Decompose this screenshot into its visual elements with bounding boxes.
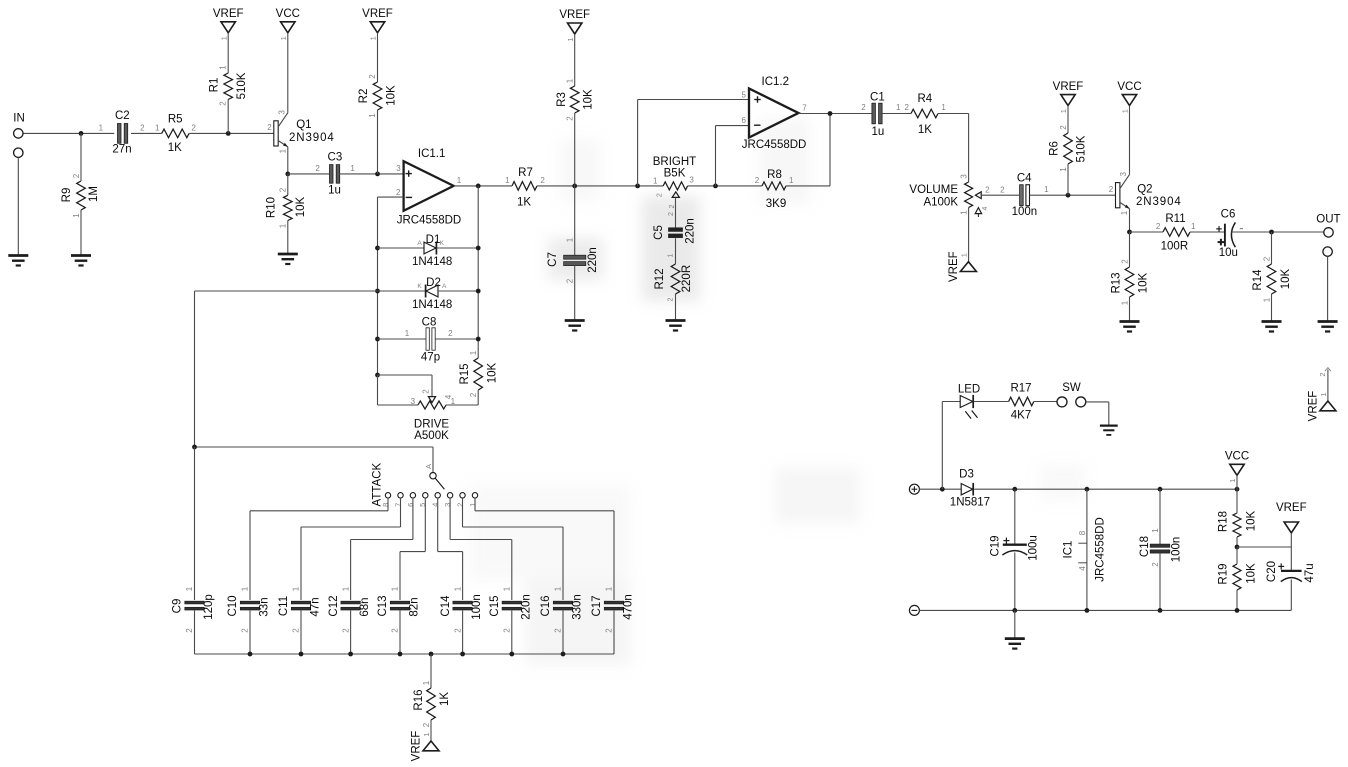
svg-text:1K: 1K: [439, 692, 451, 706]
resistor R15 10K: [459, 350, 498, 397]
svg-text:470n: 470n: [623, 594, 635, 620]
svg-text:4: 4: [444, 394, 453, 399]
svg-text:C5: C5: [653, 225, 665, 240]
diode D1 1N4148: [412, 234, 452, 268]
svg-text:1: 1: [422, 732, 431, 736]
resistor R4 1K: [904, 93, 946, 136]
svg-text:82n: 82n: [409, 597, 421, 616]
svg-text:3: 3: [411, 397, 416, 406]
node C19 top: [1012, 487, 1017, 492]
svg-text:C2: C2: [115, 110, 130, 122]
ground C7: [565, 321, 585, 331]
svg-text:R13: R13: [1110, 272, 1122, 293]
node C19 bottom: [1012, 608, 1017, 613]
svg-text:3K9: 3K9: [766, 198, 786, 210]
node C18 top: [1158, 487, 1163, 492]
svg-text:1: 1: [391, 586, 400, 591]
wire VOLUME wiper to C4: [981, 194, 1019, 196]
wire R17 to SW: [1034, 401, 1057, 403]
svg-text:JRC4558DD: JRC4558DD: [397, 214, 462, 226]
svg-text:1: 1: [350, 164, 355, 173]
svg-text:2N3904: 2N3904: [1136, 196, 1182, 208]
wire R7 to BRIGHT: [537, 185, 663, 187]
resistor R18 10K: [1218, 510, 1258, 537]
svg-text:3: 3: [396, 164, 401, 173]
resistor R1 510K: [209, 65, 249, 106]
wire R16 bottom: [430, 720, 432, 741]
svg-text:1: 1: [405, 329, 410, 338]
svg-text:2: 2: [422, 722, 431, 727]
svg-text:2: 2: [554, 628, 563, 633]
svg-text:1: 1: [1262, 297, 1271, 302]
wire VREF to R6: [1067, 106, 1069, 133]
wire C16 bottom: [562, 611, 564, 655]
svg-text:2: 2: [540, 176, 545, 185]
wire R11 to C6: [1190, 231, 1224, 233]
wire IN sleeve to ground: [17, 157, 19, 255]
svg-text:C18: C18: [1139, 536, 1151, 557]
capacitor C8 47p: [405, 317, 453, 364]
resistor R10 10K: [266, 187, 307, 228]
svg-text:R15: R15: [459, 363, 471, 384]
wire IC1.1 -input: [378, 197, 404, 375]
wire D1 left: [378, 247, 425, 249]
svg-text:B5K: B5K: [664, 168, 686, 180]
svg-text:2: 2: [656, 193, 663, 197]
node IC1 bottom: [1085, 608, 1090, 613]
svg-text:C6: C6: [1221, 209, 1236, 221]
svg-text:1: 1: [1191, 222, 1196, 231]
svg-text:IC1.2: IC1.2: [762, 76, 790, 88]
wire feedback right vertical: [477, 186, 479, 358]
wire Q2 collector to VCC: [1129, 106, 1131, 175]
op-amp IC1.2 JRC4558DD: [741, 76, 807, 151]
svg-text:C11: C11: [278, 596, 290, 616]
wire contact3 to C15: [450, 498, 512, 600]
svg-text:220n: 220n: [520, 594, 532, 620]
wire + to D3: [919, 488, 961, 490]
svg-text:IC1: IC1: [1063, 541, 1075, 559]
switch contact 1: [468, 493, 478, 507]
svg-text:C20: C20: [1266, 561, 1278, 582]
diode D2 1N4148: [412, 277, 452, 311]
wire C9 bottom: [194, 611, 196, 655]
wire R14 bottom: [1271, 294, 1273, 322]
node D2 right: [476, 289, 481, 294]
svg-text:68n: 68n: [359, 597, 371, 616]
svg-text:C7: C7: [547, 252, 559, 267]
diode LED: [958, 384, 980, 419]
svg-text:C3: C3: [328, 152, 343, 164]
rotary switch ATTACK common: [372, 462, 445, 506]
wire C19 top: [1014, 489, 1016, 543]
node Q2 emitter: [1127, 230, 1132, 235]
node R2 / +input: [375, 172, 380, 177]
svg-text:220n: 220n: [684, 218, 696, 244]
wire C8 right: [435, 338, 478, 340]
connector OUT jack: [1316, 213, 1340, 256]
resistor R5 1K: [155, 113, 196, 154]
node Q1 emitter: [285, 172, 290, 177]
svg-text:2: 2: [185, 628, 194, 633]
svg-text:A: A: [442, 283, 447, 290]
wire D1 right: [436, 247, 478, 249]
svg-text:R8: R8: [767, 169, 782, 181]
switch contact 6: [406, 493, 416, 507]
svg-text:2: 2: [1151, 562, 1160, 567]
wire ground rail: [919, 609, 1291, 611]
svg-text:1: 1: [566, 37, 575, 41]
svg-text:47p: 47p: [421, 351, 440, 363]
power VREF at divider: [1276, 502, 1307, 533]
junction bottom bus: [398, 652, 403, 657]
svg-text:2: 2: [668, 212, 675, 216]
svg-text:ATTACK: ATTACK: [372, 462, 384, 506]
wire C12 bottom: [350, 611, 352, 655]
svg-text:4: 4: [982, 206, 989, 210]
svg-text:5: 5: [418, 503, 427, 507]
svg-text:D2: D2: [426, 277, 441, 289]
svg-text:33n: 33n: [259, 597, 271, 616]
wire SW to ground: [1086, 402, 1109, 426]
svg-text:2: 2: [503, 628, 512, 633]
wire C8 left: [378, 338, 427, 340]
wire C7 bottom: [574, 266, 576, 321]
wire R9 top: [80, 133, 82, 181]
svg-text:R14: R14: [1252, 269, 1264, 291]
svg-text:1: 1: [554, 586, 563, 591]
svg-text:1: 1: [1151, 528, 1160, 533]
node C18 bottom: [1158, 608, 1163, 613]
svg-text:10K: 10K: [1245, 563, 1257, 584]
wire BRIGHT wiper to C5: [675, 198, 677, 228]
svg-text:2: 2: [72, 173, 81, 178]
node C8 left: [375, 337, 380, 342]
svg-text:1: 1: [896, 103, 901, 112]
wire R1 to base node: [227, 100, 229, 134]
svg-text:R11: R11: [1165, 213, 1185, 225]
ground supply: [1005, 639, 1025, 649]
wire C20 bottom: [1290, 580, 1292, 611]
power VREF at R6: [1053, 81, 1084, 113]
ground IN jack: [8, 256, 28, 266]
power VREF floating stub: [1307, 368, 1336, 422]
svg-text:10K: 10K: [385, 85, 397, 106]
wire emitter to C3: [288, 173, 330, 175]
capacitor C10 33n: [227, 586, 270, 633]
junction bottom bus: [429, 652, 434, 657]
svg-text:R16: R16: [413, 689, 425, 710]
svg-text:1: 1: [453, 586, 462, 591]
junction bottom bus: [248, 652, 253, 657]
wire bottom bus: [195, 653, 615, 655]
ground OUT jack: [1318, 322, 1338, 332]
node input: [79, 131, 84, 136]
wire C5 to R12: [675, 238, 677, 264]
node LED branch: [940, 487, 945, 492]
svg-text:1: 1: [241, 586, 250, 591]
svg-text:100R: 100R: [1161, 240, 1189, 252]
node R18/R19: [1235, 545, 1240, 550]
svg-text:Q1: Q1: [296, 119, 311, 131]
svg-text:R4: R4: [917, 93, 932, 105]
svg-text:OUT: OUT: [1316, 213, 1340, 225]
svg-text:1: 1: [1120, 210, 1129, 215]
wire R6 to node: [1067, 164, 1069, 195]
svg-text:R5: R5: [168, 113, 183, 125]
wire C7 top: [574, 186, 576, 255]
capacitor C6 10u polarized: [1216, 209, 1243, 259]
wire VREF stub: [1290, 533, 1292, 547]
wire C2 to R5: [131, 132, 162, 134]
resistor R11 100R: [1156, 213, 1196, 252]
capacitor C14 100n: [440, 586, 483, 633]
svg-text:2: 2: [566, 116, 575, 121]
node D1 left: [375, 246, 380, 251]
svg-text:R6: R6: [1048, 141, 1060, 156]
svg-text:10K: 10K: [487, 362, 499, 383]
connector + terminal: [909, 484, 919, 494]
wire R13 bottom: [1129, 297, 1131, 322]
wire R18 leads: [1236, 489, 1238, 547]
capacitor C17 470n: [591, 586, 634, 633]
wire R4 to VOLUME: [938, 114, 969, 183]
svg-text:10K: 10K: [1138, 272, 1150, 293]
wire R10 top: [287, 174, 289, 195]
wire C18 bottom: [1159, 554, 1161, 611]
wire R19 leads: [1236, 547, 1238, 610]
capacitor C15 220n: [489, 586, 532, 633]
svg-text:1K: 1K: [517, 197, 531, 209]
svg-text:2: 2: [755, 176, 760, 185]
power VREF at VOLUME: [948, 251, 977, 282]
node IC1.2 output: [828, 111, 833, 116]
svg-text:1K: 1K: [918, 124, 932, 136]
svg-text:3: 3: [277, 110, 286, 115]
svg-text:C8: C8: [422, 317, 437, 329]
svg-text:2: 2: [421, 389, 430, 394]
svg-text:1: 1: [959, 210, 968, 215]
node DRIVE wiper tap: [375, 373, 380, 378]
wire contact7 to C11: [301, 498, 401, 600]
svg-text:DRIVE: DRIVE: [414, 418, 449, 430]
wire C9 top: [194, 447, 196, 600]
svg-text:R2: R2: [358, 89, 370, 104]
svg-text:2: 2: [396, 188, 401, 197]
svg-text:1: 1: [422, 680, 431, 685]
svg-text:VCC: VCC: [276, 8, 300, 20]
svg-text:1: 1: [566, 237, 575, 242]
svg-text:47n: 47n: [310, 597, 322, 616]
wire VREF to R3: [574, 34, 576, 86]
svg-text:R18: R18: [1218, 511, 1230, 532]
svg-text:A100K: A100K: [923, 196, 958, 208]
wire OUT sleeve to ground: [1327, 256, 1329, 321]
svg-text:2: 2: [448, 329, 453, 338]
svg-text:SW: SW: [1062, 382, 1081, 394]
switch contact 5: [418, 493, 428, 507]
capacitor C16 330n: [540, 586, 583, 633]
op-amp IC1.1 JRC4558DD: [396, 148, 462, 227]
svg-text:2: 2: [668, 297, 675, 301]
svg-text:R3: R3: [556, 92, 568, 107]
wire C3 to op-amp + input: [340, 173, 404, 175]
svg-text:1N4148: 1N4148: [412, 299, 452, 311]
node R6 / Q2 base: [1066, 193, 1071, 198]
svg-text:220R: 220R: [681, 265, 693, 293]
capacitor C5 220n: [653, 212, 697, 258]
power VCC at Q2: [1117, 81, 1141, 113]
svg-text:1M: 1M: [88, 186, 100, 202]
diode D3 1N5817: [950, 468, 990, 508]
capacitor C13 82n: [377, 586, 420, 633]
svg-text:1: 1: [368, 113, 377, 118]
svg-text:C17: C17: [591, 595, 603, 616]
wire BRIGHT to node: [688, 185, 762, 187]
svg-text:1: 1: [1121, 109, 1130, 113]
node R14 / OUT: [1269, 230, 1274, 235]
svg-text:C16: C16: [540, 595, 552, 616]
wire D2 left: [378, 290, 426, 292]
resistor R19 10K: [1218, 563, 1258, 590]
wire contact6 to C12: [351, 498, 413, 600]
switch contact 2: [455, 493, 465, 507]
capacitor C4 100n: [1012, 172, 1050, 218]
svg-text:1N4148: 1N4148: [412, 256, 452, 268]
wire emitter to R11: [1130, 231, 1164, 233]
svg-text:2: 2: [453, 628, 462, 633]
wire R15 to DRIVE: [446, 390, 478, 405]
svg-text:1: 1: [668, 253, 675, 257]
svg-text:C10: C10: [227, 595, 239, 616]
resistor R13 10K: [1110, 259, 1149, 306]
svg-text:1: 1: [789, 176, 794, 185]
svg-text:C9: C9: [172, 599, 184, 614]
svg-text:VCC: VCC: [1225, 451, 1249, 463]
svg-text:100n: 100n: [1012, 206, 1038, 218]
svg-text:D3: D3: [959, 468, 974, 480]
wire IC1.1 output: [454, 185, 512, 187]
svg-text:1: 1: [653, 176, 658, 185]
svg-text:220n: 220n: [587, 247, 599, 273]
svg-text:10u: 10u: [1219, 247, 1238, 259]
wire R9 bottom: [80, 210, 82, 256]
svg-text:1: 1: [605, 586, 614, 591]
wire LED to R17: [974, 401, 1009, 403]
capacitor C12 68n: [328, 586, 371, 633]
node Q1 base / R1: [226, 131, 231, 136]
svg-text:10K: 10K: [295, 196, 307, 217]
svg-text:2: 2: [1000, 186, 1005, 195]
ground R13: [1120, 322, 1140, 332]
svg-text:R17: R17: [1010, 383, 1031, 395]
svg-text:R19: R19: [1218, 563, 1230, 584]
svg-text:VREF: VREF: [411, 731, 423, 762]
svg-text:2: 2: [315, 164, 320, 173]
wire R13 top: [1129, 232, 1131, 267]
switch SW: [1057, 382, 1086, 407]
svg-text:510K: 510K: [236, 72, 248, 99]
node R18 top / VCC: [1235, 487, 1240, 492]
node R3 / C7: [572, 184, 577, 189]
wire C18 top: [1159, 489, 1161, 544]
junction bottom bus: [460, 652, 465, 657]
svg-text:1: 1: [72, 213, 81, 218]
wire C13 bottom: [399, 611, 401, 655]
svg-text:2: 2: [140, 124, 145, 133]
svg-text:6: 6: [741, 116, 746, 125]
svg-text:A500K: A500K: [414, 430, 449, 442]
svg-text:47u: 47u: [1304, 563, 1316, 582]
svg-text:2N3904: 2N3904: [289, 132, 335, 144]
wire Q1 emitter: [287, 147, 289, 174]
svg-text:1: 1: [369, 36, 378, 40]
svg-text:2: 2: [904, 103, 909, 112]
wire C10 bottom: [249, 611, 251, 655]
node IC1.2 +input tap: [635, 184, 640, 189]
wire IC1.2 -input: [716, 126, 750, 186]
power VCC at rail: [1225, 451, 1249, 483]
svg-text:2: 2: [1262, 256, 1271, 261]
capacitor C7 220n: [547, 237, 599, 283]
svg-text:5: 5: [741, 90, 746, 99]
svg-text:1: 1: [219, 36, 228, 40]
svg-text:2: 2: [292, 628, 301, 633]
svg-text:VREF: VREF: [362, 8, 393, 20]
svg-text:8: 8: [1078, 530, 1087, 535]
wire R2 to node: [377, 110, 379, 174]
svg-text:10K: 10K: [1245, 510, 1257, 531]
svg-text:IC1.1: IC1.1: [418, 148, 446, 160]
wire Q1 collector to VCC: [287, 33, 289, 113]
node C8 right: [476, 337, 481, 342]
svg-text:C12: C12: [328, 595, 340, 616]
wire C1 to R4: [882, 113, 911, 115]
svg-text:R12: R12: [654, 268, 666, 289]
capacitor C1 1u: [861, 92, 901, 139]
svg-text:1: 1: [1319, 392, 1328, 396]
wire C14 bottom: [462, 611, 464, 655]
svg-text:A: A: [424, 464, 433, 469]
connector IN jack: [13, 113, 25, 158]
svg-text:2: 2: [1156, 222, 1161, 231]
svg-text:100n: 100n: [1171, 537, 1183, 563]
potentiometer BRIGHT B5K: [653, 156, 696, 209]
svg-text:C4: C4: [1017, 172, 1032, 184]
resistor R17 4K7: [1009, 383, 1034, 422]
svg-text:1: 1: [1059, 109, 1068, 113]
switch contact 4: [431, 493, 441, 507]
resistor R8 3K9: [755, 169, 794, 210]
svg-text:1: 1: [292, 586, 301, 591]
wire R16 top: [430, 654, 432, 688]
capacitor C20 47u polarized: [1266, 561, 1316, 583]
wire R3 to bus: [574, 113, 576, 186]
junction bottom bus: [509, 652, 514, 657]
svg-text:2: 2: [1120, 259, 1129, 264]
svg-text:R10: R10: [266, 197, 278, 218]
svg-text:10K: 10K: [1280, 268, 1292, 289]
svg-text:2: 2: [191, 123, 196, 132]
svg-text:4: 4: [1078, 566, 1087, 571]
wire VREF junction to C20: [1237, 546, 1291, 548]
node IC1.1 output: [476, 184, 481, 189]
wire C20 top: [1290, 547, 1292, 570]
svg-text:C15: C15: [489, 595, 501, 616]
svg-text:1: 1: [1059, 167, 1068, 172]
svg-text:D1: D1: [426, 234, 441, 246]
svg-text:A: A: [417, 240, 422, 247]
